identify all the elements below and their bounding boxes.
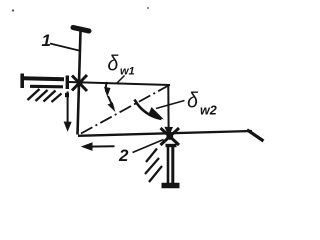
svg-text:1: 1 — [42, 31, 51, 50]
leader line from label 2 — [133, 140, 164, 153]
delta w2 arrow head — [149, 107, 165, 120]
svg-text:δ: δ — [187, 88, 198, 112]
left support left cap bar — [20, 74, 24, 89]
leader line from label 1 — [50, 44, 81, 52]
right support right bar — [171, 146, 174, 184]
contact cross 2 — [161, 128, 180, 145]
left support bottom bar — [30, 85, 63, 89]
left support hatch stroke d — [52, 94, 62, 103]
delta w1 arrow mid segment — [108, 96, 114, 108]
ruler 1 vertical line — [78, 31, 81, 135]
delta w1 arrow stub from line — [106, 82, 107, 92]
right support hatch stroke b — [145, 158, 159, 174]
ruler 1 top cap — [73, 28, 89, 32]
svg-text:2: 2 — [118, 146, 129, 165]
dash-dot diagonal — [81, 86, 169, 134]
left arrow shaft under guide — [88, 145, 115, 147]
delta w1 leader — [117, 76, 125, 84]
delta w2 leader — [156, 101, 185, 109]
left support hatch stroke c — [44, 91, 56, 102]
svg-text:w2: w2 — [200, 104, 217, 118]
down arrow head — [64, 122, 72, 132]
bottom guide end tick — [247, 130, 264, 141]
left support right cap bar — [66, 76, 69, 90]
right vertical arrow shaft — [167, 86, 169, 128]
right vertical arrow head — [164, 127, 173, 136]
speck dot top-left — [12, 9, 14, 11]
left support hatch stroke a — [28, 89, 40, 100]
bottom guide line — [78, 131, 252, 136]
right support hatch stroke a — [146, 149, 157, 163]
svg-text:δ: δ — [108, 51, 119, 75]
right support left bar — [167, 147, 170, 184]
contact cross 1 — [72, 75, 87, 91]
delta w1 arrow head lower — [108, 103, 116, 113]
right support top cap — [166, 144, 177, 147]
right support hatch stroke c — [149, 166, 162, 182]
delta w1 arrow head upper — [104, 87, 111, 97]
top horizontal guide line — [69, 82, 170, 85]
contact cross 2 center blob — [166, 133, 173, 140]
left support top bar — [23, 76, 64, 81]
contact cross 1 center blob — [77, 80, 83, 86]
left support hatch stroke b — [36, 90, 48, 101]
left arrow head — [81, 142, 93, 151]
down arrow shaft near support 1 — [67, 92, 69, 123]
right support bottom cap — [162, 183, 180, 189]
left support lower dot — [65, 93, 69, 97]
speck dot top-middle — [147, 7, 149, 9]
svg-text:w1: w1 — [120, 66, 135, 78]
delta w2 angle arc — [135, 100, 162, 120]
